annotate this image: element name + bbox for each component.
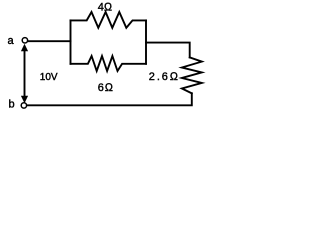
svg-text:6Ω: 6Ω xyxy=(98,82,114,94)
svg-text:2.6Ω: 2.6Ω xyxy=(149,71,180,83)
svg-text:10V: 10V xyxy=(40,72,58,83)
svg-text:4Ω: 4Ω xyxy=(98,1,113,13)
svg-text:b: b xyxy=(9,99,15,111)
svg-text:a: a xyxy=(8,35,15,47)
